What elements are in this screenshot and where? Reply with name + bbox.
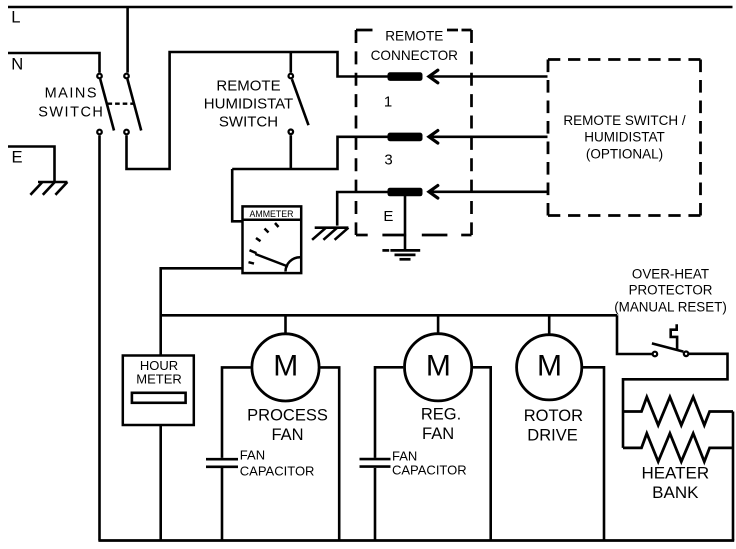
svg-text:SWITCH: SWITCH (219, 113, 278, 130)
svg-text:BANK: BANK (652, 483, 699, 502)
svg-text:FAN: FAN (240, 447, 265, 462)
svg-text:REG.: REG. (421, 406, 461, 424)
svg-text:E: E (12, 148, 23, 167)
svg-text:OVER-HEAT: OVER-HEAT (632, 267, 709, 282)
svg-text:ROTOR: ROTOR (524, 407, 583, 425)
svg-text:HUMIDISTAT: HUMIDISTAT (584, 130, 665, 145)
svg-text:AMMETER: AMMETER (250, 209, 294, 219)
svg-text:REMOTE: REMOTE (216, 78, 280, 95)
svg-text:(MANUAL RESET): (MANUAL RESET) (614, 299, 727, 314)
svg-text:FAN: FAN (271, 426, 303, 444)
svg-text:M: M (426, 350, 451, 383)
svg-text:1: 1 (384, 94, 392, 111)
svg-text:MAINS: MAINS (45, 86, 98, 102)
svg-text:(OPTIONAL): (OPTIONAL) (586, 146, 663, 161)
svg-text:PROCESS: PROCESS (247, 406, 328, 424)
svg-text:L: L (11, 8, 20, 27)
svg-text:M: M (537, 350, 562, 383)
svg-text:HUMIDISTAT: HUMIDISTAT (204, 96, 293, 113)
svg-text:PROTECTOR: PROTECTOR (629, 283, 713, 298)
svg-text:METER: METER (136, 372, 182, 387)
svg-text:REMOTE SWITCH /: REMOTE SWITCH / (563, 113, 685, 128)
svg-text:HEATER: HEATER (641, 464, 709, 483)
svg-text:3: 3 (384, 151, 392, 168)
svg-text:REMOTE: REMOTE (385, 29, 443, 44)
svg-text:FAN: FAN (392, 448, 417, 463)
svg-text:CONNECTOR: CONNECTOR (371, 48, 459, 63)
svg-text:DRIVE: DRIVE (527, 426, 577, 444)
svg-text:FAN: FAN (422, 425, 454, 443)
svg-text:M: M (273, 350, 298, 383)
svg-text:CAPACITOR: CAPACITOR (240, 463, 315, 478)
svg-text:SWITCH: SWITCH (38, 105, 104, 121)
svg-text:CAPACITOR: CAPACITOR (392, 463, 467, 478)
svg-text:E: E (383, 208, 393, 225)
svg-text:N: N (11, 55, 23, 74)
